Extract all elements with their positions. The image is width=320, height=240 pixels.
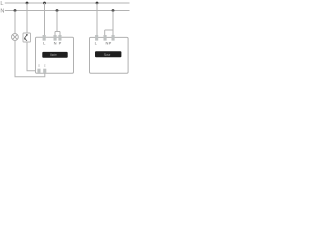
svg-text:Slave: Slave: [104, 53, 111, 57]
svg-text:N: N: [0, 9, 4, 15]
svg-text:P: P: [109, 41, 112, 46]
svg-text:L: L: [0, 1, 3, 7]
svg-text:P: P: [59, 41, 62, 46]
svg-text:Master: Master: [50, 53, 57, 57]
svg-text:N: N: [54, 41, 57, 46]
